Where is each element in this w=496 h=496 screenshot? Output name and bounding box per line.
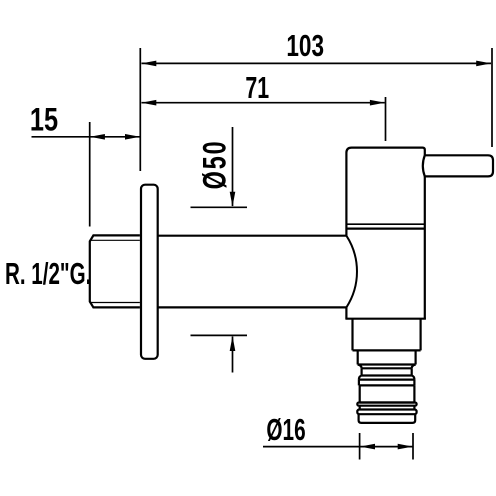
outlet band bbox=[358, 350, 416, 364]
outlet flare bbox=[359, 376, 415, 380]
dimension 103 arrow right bbox=[476, 61, 491, 67]
dimension 71 label bbox=[245, 70, 269, 105]
barb ring A bbox=[357, 403, 416, 406]
dimension 103 line bbox=[142, 62, 492, 64]
dimension 103 arrow left bbox=[141, 61, 156, 67]
extension line pipe end bbox=[89, 122, 91, 227]
outlet waist bbox=[362, 368, 412, 375]
dimension 103 label bbox=[286, 29, 324, 63]
extension line barrel right bbox=[412, 433, 414, 460]
tube top edge bbox=[158, 235, 346, 237]
dimension D50 label (rotated) bbox=[195, 141, 232, 189]
dimension D50 lower arrow line bbox=[232, 337, 234, 373]
threaded pipe bbox=[90, 235, 140, 307]
svg-text:103: 103 bbox=[286, 29, 324, 63]
dimension D50 lower boundary line bbox=[191, 334, 248, 336]
dimension D50 lower arrow head bbox=[230, 336, 236, 351]
dimension D16 label bbox=[266, 412, 305, 447]
collar ring bbox=[359, 380, 415, 386]
nozzle barrel bbox=[360, 385, 415, 402]
extension line left (flange face) bbox=[139, 48, 141, 171]
dimension D50 upper arrow line bbox=[232, 127, 234, 206]
dimension 71 arrow left bbox=[141, 100, 156, 106]
dimension D50 upper boundary line bbox=[191, 206, 248, 208]
wall flange bbox=[141, 185, 158, 359]
extension line body axis bbox=[385, 97, 387, 141]
dimension 71 line bbox=[142, 102, 385, 104]
outlet chamfer bbox=[358, 365, 416, 369]
tube bottom edge bbox=[158, 306, 346, 308]
svg-text:R. 1/2"G.: R. 1/2"G. bbox=[5, 256, 91, 291]
nozzle tip bbox=[359, 414, 416, 423]
dimension D16 arrow right bbox=[398, 444, 413, 450]
dimension 71 arrow right bbox=[370, 100, 385, 106]
barb ring B bbox=[357, 410, 416, 415]
svg-text:Ø16: Ø16 bbox=[266, 412, 305, 447]
barb groove bbox=[360, 406, 415, 410]
dimension D16 arrow left bbox=[360, 444, 375, 450]
svg-text:Ø50: Ø50 bbox=[195, 141, 232, 189]
body joint upper line bbox=[346, 223, 424, 225]
lever handle bbox=[423, 155, 493, 176]
thread crest lines bbox=[91, 240, 140, 302]
svg-text:71: 71 bbox=[245, 70, 269, 105]
outlet neck bbox=[353, 319, 421, 351]
dimension 15 leader and line bbox=[32, 136, 141, 138]
valve body bbox=[345, 148, 426, 319]
dimension D16 leader and line bbox=[263, 446, 413, 448]
dimension 15 arrow right bbox=[125, 134, 140, 140]
tube-body intersection arc bbox=[346, 236, 357, 308]
thread label R 1/2 G bbox=[5, 256, 91, 291]
dimension 15 arrow left bbox=[90, 134, 105, 140]
svg-text:15: 15 bbox=[30, 103, 58, 139]
body joint lower line bbox=[346, 228, 424, 230]
dimension 15 label bbox=[30, 103, 58, 139]
dimension D50 upper arrow head bbox=[230, 192, 236, 207]
extension line barrel left bbox=[359, 433, 361, 460]
extension line right (handle tip) bbox=[491, 48, 493, 147]
